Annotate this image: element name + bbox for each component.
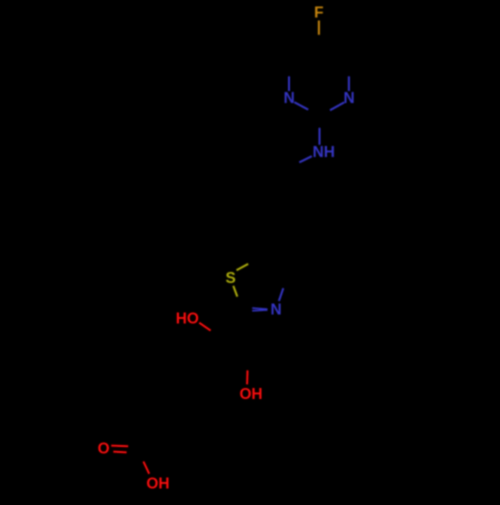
bond C=O carboxyl double lower line (O half, red): [113, 451, 126, 454]
bond S1-C5 thiazole upper diagonal (S half, yellow): [237, 264, 249, 270]
svg-text:HO: HO: [176, 310, 199, 327]
svg-text:N: N: [284, 90, 295, 107]
svg-text:NH: NH: [313, 144, 335, 161]
bond N3-C2 pyrimidine right diagonal (N half, blue): [330, 102, 344, 110]
svg-text:OH: OH: [146, 476, 169, 493]
bond F-C5 (fluorine half, gold): [318, 21, 320, 35]
svg-text:N: N: [270, 302, 281, 319]
bond C-OH carboxyl diagonal (O half, red): [143, 462, 149, 474]
svg-text:F: F: [314, 4, 323, 21]
bond N1-C2 pyrimidine left diagonal (N half, blue): [294, 102, 308, 109]
bond S1-C2 thiazole lower diagonal (S half, yellow): [233, 286, 237, 297]
bond C6-N1 pyrimidine left vertical (N half, blue): [288, 76, 290, 91]
bond C2-NH amine vertical (N half, blue): [319, 128, 321, 145]
bond C2=N3 thiazole horizontal double (N half, blue) line a: [252, 308, 267, 309]
bond NH-CH2 diagonal (N half, blue): [299, 156, 312, 162]
bond C2=N3 thiazole horizontal double (N half, blue) line b: [252, 309, 267, 312]
svg-text:N: N: [343, 90, 354, 107]
bond O-C hydroxyl left diagonal (O half, red): [199, 323, 210, 331]
bond N3-C4 thiazole diagonal (N half, blue): [279, 288, 283, 301]
bond C=O carboxyl double upper line (O half, red): [111, 445, 128, 448]
svg-text:S: S: [225, 270, 235, 287]
bond C-O hydroxyl mid vertical (O half, red): [246, 370, 248, 384]
svg-text:OH: OH: [239, 386, 262, 403]
svg-text:O: O: [98, 440, 110, 457]
bond C4-N3 pyrimidine right vertical (N half, blue): [348, 76, 350, 91]
